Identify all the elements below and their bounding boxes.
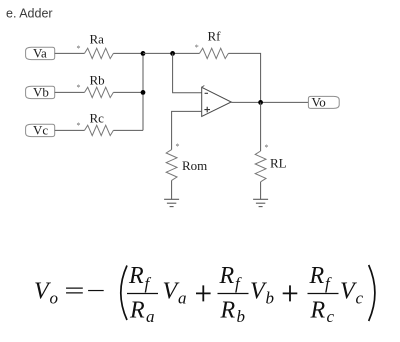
svg-text:b: b <box>237 307 246 326</box>
svg-text:b: b <box>266 289 275 308</box>
svg-text:Va: Va <box>33 45 47 60</box>
svg-text:R: R <box>129 297 145 323</box>
junction node inverting branch <box>170 51 175 56</box>
wire branch to inverting input <box>173 53 202 92</box>
wire Rf to output column <box>228 53 260 102</box>
wire output node to RL <box>260 102 262 151</box>
terminal Vo <box>308 94 339 109</box>
svg-text:V: V <box>163 279 180 305</box>
svg-text:V: V <box>250 279 267 305</box>
svg-text:e. Adder: e. Adder <box>6 6 53 20</box>
junction node output <box>258 100 263 105</box>
svg-text:*: * <box>77 121 81 130</box>
svg-text:V: V <box>340 279 357 305</box>
svg-text:Rc: Rc <box>90 111 105 126</box>
svg-text:R: R <box>309 263 325 289</box>
wire Vc to Rc <box>55 129 85 131</box>
svg-text:Ra: Ra <box>90 32 105 47</box>
svg-text:*: * <box>265 143 269 152</box>
svg-text:Rom: Rom <box>182 158 207 173</box>
wire Rom to ground <box>171 180 173 199</box>
resistor Rc <box>85 111 114 136</box>
ground under Rom <box>164 199 179 206</box>
ground under RL <box>253 199 268 206</box>
svg-text:R: R <box>220 297 236 323</box>
wire node to Rf <box>143 52 200 54</box>
resistor Ra <box>85 32 114 59</box>
svg-text:Vb: Vb <box>33 84 49 99</box>
formula plus sign 2 <box>283 285 298 301</box>
svg-text:Rb: Rb <box>90 73 105 88</box>
formula Vo = -(Rf/Ra Va + Rf/Rb Vb + Rf/Rc Vc) <box>34 263 375 326</box>
wire Va to Ra <box>55 52 85 54</box>
svg-text:Rf: Rf <box>208 29 222 44</box>
resistor Rom <box>166 150 207 181</box>
svg-text:c: c <box>327 307 335 326</box>
svg-text:Vo: Vo <box>312 94 326 109</box>
svg-text:−: − <box>86 278 105 304</box>
formula right parenthesis <box>369 265 375 321</box>
formula plus sign 1 <box>196 285 211 301</box>
resistor Rb <box>85 73 114 98</box>
svg-text:*: * <box>77 44 81 53</box>
wire Ra to node <box>113 52 143 54</box>
op-amp U1 <box>202 86 232 117</box>
formula left parenthesis <box>121 266 127 321</box>
svg-text:R: R <box>219 263 235 289</box>
svg-text:*: * <box>195 43 199 52</box>
svg-text:c: c <box>356 289 364 308</box>
svg-text:*: * <box>176 142 180 151</box>
svg-text:*: * <box>77 83 81 92</box>
wire noninverting input to Rom <box>172 111 202 149</box>
wire Rc to bus <box>113 129 143 131</box>
resistor RL <box>255 151 286 182</box>
junction node at Ra/bus <box>141 51 146 56</box>
wire op-amp output to Vo <box>231 101 308 103</box>
svg-text:=: = <box>64 277 84 304</box>
terminal Vb <box>26 84 55 99</box>
svg-text:a: a <box>178 289 187 308</box>
wire Vb to Rb <box>55 91 85 93</box>
terminal Va <box>26 45 55 60</box>
svg-text:Vc: Vc <box>33 122 48 137</box>
svg-text:V: V <box>34 279 51 305</box>
svg-text:RL: RL <box>270 156 287 171</box>
wire summing bus vertical <box>142 53 144 130</box>
terminal Vc <box>26 122 55 137</box>
svg-text:a: a <box>146 307 155 326</box>
svg-text:R: R <box>128 263 144 289</box>
resistor Rf <box>200 29 229 59</box>
wire RL to ground <box>260 182 262 200</box>
svg-text:R: R <box>310 297 326 323</box>
wire Rb to node <box>113 91 143 93</box>
junction node at Rb/bus <box>141 90 146 95</box>
svg-text:o: o <box>50 289 59 308</box>
